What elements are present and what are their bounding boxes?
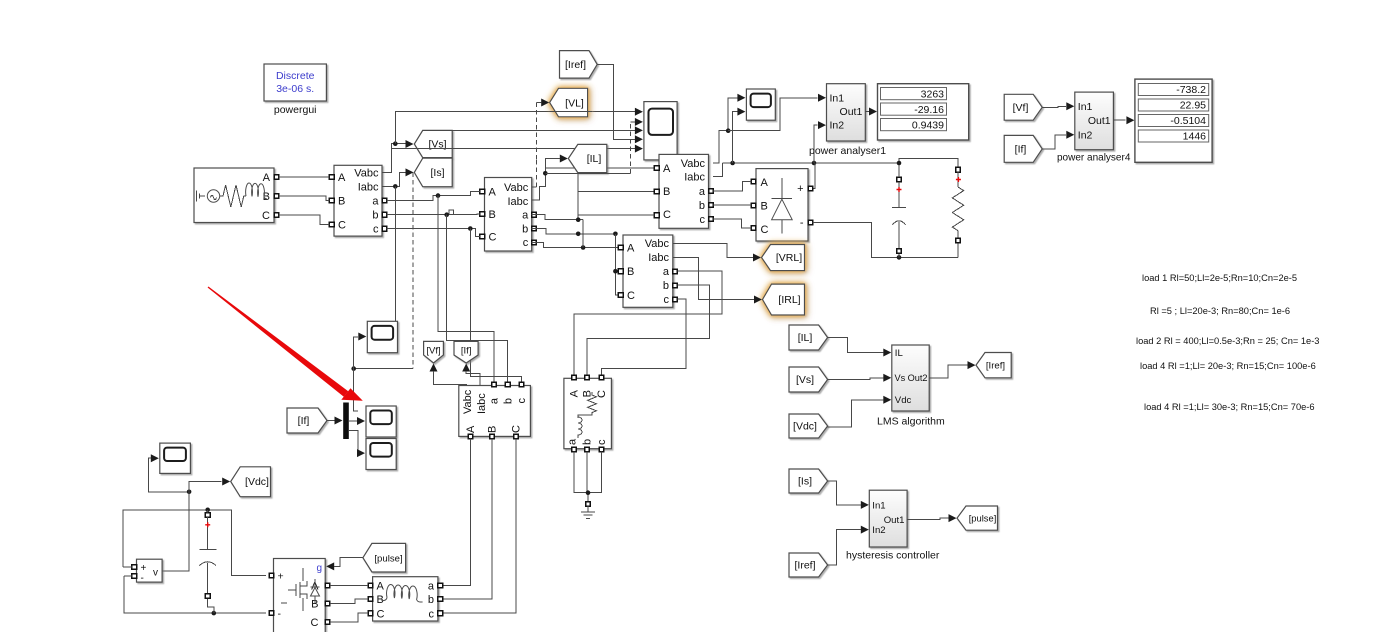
igbt port B — [325, 601, 330, 606]
svg-text:a: a — [522, 210, 529, 222]
svg-text:A: A — [338, 172, 346, 184]
goto tag Vdc — [231, 467, 271, 497]
arrow into Iref — [968, 361, 976, 369]
dc bus bottom rail — [124, 576, 266, 613]
meas2 port c out — [532, 240, 537, 245]
wire meas3 a to bridge A — [713, 182, 751, 191]
node ground junction — [586, 490, 591, 495]
wire dashed feed to scope cluster — [412, 172, 414, 368]
power analyser4 block — [1057, 92, 1131, 163]
svg-text:a: a — [489, 397, 501, 404]
wire to meas3 A — [545, 167, 654, 169]
source port C — [274, 213, 279, 218]
from tag If (top right) — [1004, 135, 1042, 162]
small scope (2 inputs) — [746, 89, 775, 120]
vm port plus — [132, 565, 137, 570]
svg-text:[Vf]: [Vf] — [1013, 102, 1029, 114]
from tag Vdc (right) — [789, 414, 828, 438]
load port a — [572, 447, 577, 452]
node meas4 B — [613, 269, 618, 274]
wire over VL — [550, 111, 592, 113]
wire Iref to hysteresis — [828, 530, 861, 565]
svg-text:[If]: [If] — [461, 345, 472, 356]
svg-text:c: c — [516, 398, 528, 404]
svg-text:[Iref]: [Iref] — [986, 361, 1005, 372]
wire pulse to g — [334, 558, 363, 567]
svg-text:b: b — [699, 200, 705, 212]
wire fmeas Vabc to Vf — [434, 371, 467, 386]
wire meas3 c to bridge C — [713, 219, 751, 228]
meas3 port A — [654, 166, 659, 171]
wire a branch down to filter meas a — [438, 196, 494, 385]
wire fmeas C down to inductor c — [443, 439, 516, 614]
ground — [581, 502, 595, 519]
bridge port minus — [808, 220, 813, 225]
analyser1 input arrows — [818, 94, 826, 102]
svg-text:power analyser4: power analyser4 — [1057, 153, 1131, 164]
svg-text:In2: In2 — [872, 525, 885, 536]
svg-text:C: C — [761, 224, 769, 236]
svg-text:B: B — [489, 209, 496, 221]
svg-text:[Vdc]: [Vdc] — [245, 476, 269, 488]
node Vabc junction — [393, 141, 398, 146]
svg-text:c: c — [664, 294, 670, 306]
meas2 port b out — [532, 226, 537, 231]
node c branch — [468, 226, 473, 231]
svg-text:Vabc: Vabc — [645, 238, 670, 250]
scope Vdc — [160, 443, 191, 473]
node rail In2 — [812, 161, 817, 166]
meas1 port B — [329, 198, 334, 203]
meas1 port c out — [382, 226, 387, 231]
wire meas1 b to meas2 B (with hop) — [387, 210, 480, 215]
wire meas4 Iabc to IRL — [673, 257, 754, 299]
svg-text:[VRL]: [VRL] — [776, 252, 802, 264]
svg-text:[VL]: [VL] — [565, 97, 584, 109]
wire meas1 c to meas2 C — [387, 229, 480, 237]
svg-text:load 4 Rl =1;Ll= 20e-3; Rn=15;: load 4 Rl =1;Ll= 20e-3; Rn=15;Cn= 100e-6 — [1140, 361, 1316, 371]
meas3 port B — [654, 189, 659, 194]
svg-text:Iabc: Iabc — [648, 252, 669, 264]
svg-text:a: a — [663, 266, 670, 278]
wire c branch down to filter meas c — [470, 229, 521, 385]
svg-text:powergui: powergui — [274, 104, 317, 116]
svg-text:Rl =5 ; Ll=20e-3; Rn=80;Cn= 1e: Rl =5 ; Ll=20e-3; Rn=80;Cn= 1e-6 — [1150, 306, 1290, 316]
wire bus to scope in5 — [391, 148, 635, 150]
svg-text:C: C — [262, 210, 270, 222]
svg-text:In1: In1 — [1078, 101, 1093, 113]
wire meas2 b bus — [532, 229, 616, 234]
inductor port c — [438, 611, 443, 616]
wire meas2 Iabc to IL — [532, 159, 560, 200]
node c bus — [581, 245, 586, 250]
svg-text:v: v — [153, 568, 158, 579]
node dc cap bottom — [212, 611, 217, 616]
wire meas1 Iabc to Is — [382, 172, 406, 186]
mux bar — [343, 403, 349, 440]
svg-text:A: A — [663, 163, 671, 175]
arrow into Vf — [430, 364, 438, 372]
svg-text:-: - — [141, 573, 144, 584]
svg-text:c: c — [429, 609, 435, 621]
meas4 port C — [618, 293, 623, 298]
svg-text:hysteresis controller: hysteresis controller — [846, 550, 940, 562]
from tag pulse (flipped) — [363, 543, 406, 572]
svg-text:A: A — [761, 177, 769, 189]
svg-text:[If]: [If] — [298, 415, 310, 427]
arrow into Vs — [406, 140, 414, 148]
wire fmeas Iabc to If — [466, 371, 480, 386]
svg-text:C: C — [596, 390, 608, 398]
analyser4 input arrows — [1066, 102, 1074, 110]
scope bl2 — [366, 406, 396, 437]
from tag Iref (bottom right) — [789, 553, 828, 577]
wire meas3 Iabc joins dc rail — [713, 163, 722, 177]
load port c — [599, 447, 604, 452]
svg-text:Vabc: Vabc — [681, 158, 706, 170]
load port C — [599, 375, 604, 380]
meas4 port a out — [673, 269, 678, 274]
display1 — [878, 84, 969, 140]
wire Iref to scope in4 — [597, 64, 635, 139]
svg-text:a: a — [699, 186, 706, 198]
diode bridge block — [756, 169, 808, 241]
meas3 port a out — [709, 189, 714, 194]
VI measurement meas1 — [334, 165, 382, 236]
wire igbt B to inductor B — [330, 599, 368, 603]
arrow into VL — [541, 99, 549, 107]
VI measurement meas3 — [659, 154, 709, 228]
goto tag IRL (highlighted) — [763, 284, 805, 315]
wire bus Vs to scope in1 — [395, 112, 635, 144]
powergui block — [264, 64, 326, 116]
small scope arrows — [737, 94, 745, 102]
meas1 port b out — [382, 212, 387, 217]
node a bus — [576, 217, 581, 222]
igbt port plus — [269, 573, 274, 578]
wire analyser4 Out1 to display2 — [1113, 119, 1125, 121]
svg-text:Out1: Out1 — [884, 515, 905, 526]
svg-text:Out2: Out2 — [908, 373, 928, 383]
goto tag Vf (down) — [424, 341, 444, 363]
three-phase inductor block — [373, 577, 438, 621]
svg-text:[Is]: [Is] — [430, 167, 444, 179]
svg-text:In2: In2 — [1078, 129, 1093, 141]
svg-text:[Iref]: [Iref] — [565, 59, 586, 71]
wire vm output up to Vdc — [162, 482, 221, 572]
goto tag VRL (highlighted) — [762, 245, 805, 271]
source port A — [274, 175, 279, 180]
from tag Is (right) — [789, 469, 828, 493]
goto tag IL — [568, 144, 607, 172]
wire meas1 a to meas2 A — [387, 192, 480, 201]
svg-text:B: B — [338, 196, 345, 208]
wire igbt C to inductor C — [330, 613, 368, 622]
wire meas2 Vabc to VL (dashed) — [536, 103, 538, 188]
source port B — [274, 194, 279, 199]
red annotation arrow — [208, 287, 363, 401]
svg-text:[pulse]: [pulse] — [969, 513, 997, 524]
fmeas port b — [505, 382, 510, 387]
display2 — [1135, 79, 1212, 162]
svg-text:3e-06 s.: 3e-06 s. — [276, 83, 314, 95]
wire to analyser1 In1 — [728, 98, 817, 131]
wire Vdc to LMS — [828, 400, 884, 427]
meas1 port A — [329, 175, 334, 180]
inductor port b — [438, 597, 443, 602]
scope bl3 — [366, 439, 396, 470]
wire Vs to LMS — [828, 378, 884, 380]
meas2 port a out — [532, 212, 537, 217]
wire IL to LMS — [828, 338, 884, 353]
goto tag If (down) — [454, 341, 478, 363]
node b branch — [444, 212, 449, 217]
from tag IL (right) — [789, 325, 828, 350]
wire analyser1 Out1 to display1 — [865, 111, 869, 113]
node dc cap top — [205, 508, 210, 513]
arrow into g — [326, 562, 334, 570]
svg-text:Iabc: Iabc — [476, 393, 488, 414]
arrow into pulse — [949, 514, 957, 522]
fmeas port c — [519, 382, 524, 387]
arrow into IRL — [754, 296, 762, 304]
svg-text:c: c — [700, 214, 706, 226]
svg-text:A: A — [465, 425, 477, 433]
svg-text:A: A — [489, 187, 497, 199]
svg-text:[Is]: [Is] — [798, 476, 812, 488]
svg-text:Vdc: Vdc — [895, 395, 912, 406]
wire source C to meas1 C — [279, 215, 330, 225]
svg-text:+: + — [278, 570, 284, 582]
wire rail to analyser1 In2 — [814, 125, 818, 163]
svg-text:B: B — [627, 266, 634, 278]
arrow into VRL — [753, 254, 761, 262]
wire spine x578 — [577, 173, 579, 219]
svg-text:C: C — [338, 220, 346, 232]
node a branch — [436, 193, 441, 198]
inductor port A — [368, 583, 373, 588]
meas2 port B — [480, 212, 485, 217]
inductor port B — [368, 597, 373, 602]
wire meas3 b to bridge B — [713, 204, 751, 206]
svg-text:-29.16: -29.16 — [914, 104, 944, 116]
wire If to mux — [327, 420, 335, 422]
wire to scope bl1 — [354, 337, 359, 369]
svg-text:a: a — [428, 581, 435, 593]
wire bus to scope in3 — [423, 129, 635, 131]
inductor port C — [368, 611, 373, 616]
wire b bus down to meas4 B and C — [615, 234, 618, 295]
wire spine to meas3 B — [578, 191, 654, 193]
wire b branch down to filter meas b — [447, 215, 508, 385]
svg-text:A: A — [263, 172, 271, 184]
wire source B to meas1 B — [279, 196, 330, 201]
svg-text:a: a — [567, 438, 579, 445]
from tag If (bottom-left) — [287, 408, 327, 433]
wire igbt A to inductor A — [330, 584, 368, 586]
meas2 port C — [480, 234, 485, 239]
svg-text:c: c — [596, 439, 608, 445]
svg-text:load 2 Rl = 400;Ll=0.5e-3;Rn =: load 2 Rl = 400;Ll=0.5e-3;Rn = 25; Cn= 1… — [1136, 336, 1319, 346]
node Iabc junction — [393, 184, 398, 189]
wire meas2 c bus — [532, 242, 619, 247]
goto tag pulse (right) — [957, 506, 998, 530]
dc capacitor — [199, 510, 216, 613]
fmeas port C — [514, 434, 519, 439]
meas1 port C — [329, 222, 334, 227]
wire meas3 Vabc up to scope/In1 — [713, 98, 737, 163]
svg-text:Out1: Out1 — [840, 106, 863, 118]
voltage measurement block — [137, 559, 163, 584]
load resistor branch — [952, 167, 963, 257]
node — [613, 232, 618, 237]
fmeas port a — [492, 382, 497, 387]
wire load bottom to ground — [574, 452, 602, 502]
svg-text:b: b — [522, 223, 528, 235]
meas1 port a out — [382, 198, 387, 203]
node b bus — [576, 232, 581, 237]
svg-text:LMS algorithm: LMS algorithm — [877, 416, 945, 428]
wire Iabc down branch — [394, 186, 396, 321]
three-phase source block — [194, 168, 274, 223]
svg-text:b: b — [372, 210, 378, 222]
svg-text:c: c — [373, 224, 379, 236]
wire dc rail — [722, 162, 899, 164]
arrow into If — [462, 364, 470, 372]
svg-text:[If]: [If] — [1015, 144, 1027, 156]
svg-text:B: B — [761, 201, 768, 213]
wire Is to hysteresis — [828, 481, 861, 505]
igbt bridge block — [274, 559, 326, 632]
three-phase load block (rotated) — [564, 378, 612, 448]
svg-text:[Vdc]: [Vdc] — [793, 421, 817, 433]
svg-text:-738.2: -738.2 — [1176, 84, 1206, 96]
arrow into Is — [406, 168, 414, 176]
wire IL branch to scope in2 (dashed vertical) — [545, 172, 630, 174]
svg-text:In2: In2 — [830, 120, 845, 132]
wire meas4 a to load A — [574, 271, 722, 375]
wire mux to scope bl3 — [349, 430, 359, 453]
scope input arrows — [635, 108, 643, 116]
arrow into Vdc — [222, 478, 230, 486]
svg-text:0.9439: 0.9439 — [912, 119, 944, 131]
svg-text:c: c — [523, 237, 529, 249]
wire mux to scope bl2 — [349, 420, 357, 422]
svg-text:C: C — [377, 609, 385, 621]
from tag Iref (top) — [560, 51, 598, 79]
svg-text:C: C — [489, 232, 497, 244]
svg-text:Vabc: Vabc — [504, 182, 529, 194]
LMS algorithm block — [877, 345, 945, 428]
svg-text:Iabc: Iabc — [358, 182, 379, 194]
node bottom rail cap — [897, 255, 902, 260]
wire cluster down — [354, 369, 359, 411]
svg-text:Out1: Out1 — [1088, 115, 1111, 127]
svg-text:-: - — [800, 217, 804, 229]
svg-text:Vs: Vs — [895, 373, 906, 383]
svg-text:22.95: 22.95 — [1180, 100, 1206, 112]
goto tag Iref (LMS out) — [976, 353, 1011, 378]
power analyser1 block — [809, 84, 886, 157]
filter VI measurement (rotated) — [459, 386, 531, 437]
wire hysteresis Out1 to pulse — [907, 518, 948, 520]
svg-text:[Iref]: [Iref] — [794, 560, 815, 572]
svg-text:In1: In1 — [830, 92, 845, 104]
svg-text:B: B — [487, 426, 499, 433]
goto tag Vs — [414, 130, 452, 157]
svg-text:Iabc: Iabc — [684, 172, 705, 184]
svg-text:b: b — [663, 280, 669, 292]
vm port minus — [132, 574, 137, 579]
wire a bus down to meas4 A — [582, 220, 584, 248]
wire If to analyser4 — [1042, 135, 1066, 149]
goto tag VL (highlighted) — [550, 88, 588, 117]
wire rail to scope in2 — [733, 112, 738, 163]
inductor port a — [438, 583, 443, 588]
svg-text:C: C — [311, 617, 319, 629]
svg-text:b: b — [428, 594, 434, 606]
wire fmeas B down to inductor b — [443, 439, 492, 599]
wire Vf to analyser4 — [1042, 106, 1066, 107]
meas3 port c out — [709, 217, 714, 222]
svg-text:[Vs]: [Vs] — [796, 374, 814, 386]
wire Vdc node to scope — [149, 458, 190, 492]
dc-link capacitor branch — [892, 159, 958, 258]
wire LMS Out2 to Iref — [929, 365, 967, 378]
svg-text:[IL]: [IL] — [587, 153, 602, 165]
LMS input arrows — [883, 349, 891, 357]
fmeas port B — [490, 434, 495, 439]
from tag Vf (top right) — [1004, 94, 1042, 120]
svg-text:+: + — [797, 183, 803, 195]
meas4 port B — [618, 269, 623, 274]
goto tag Is — [414, 158, 452, 187]
meas4 port c out — [673, 297, 678, 302]
fmeas port A — [468, 434, 473, 439]
wire source A to meas1 A — [279, 176, 330, 178]
meas3 port b out — [709, 203, 714, 208]
svg-text:1446: 1446 — [1183, 131, 1207, 143]
svg-text:In1: In1 — [872, 500, 885, 511]
scope (main, 5 inputs) — [644, 102, 677, 160]
wire spine to meas3 C — [578, 214, 654, 216]
VI measurement meas2 — [485, 178, 532, 252]
arrow into IL — [560, 155, 568, 163]
svg-text:A: A — [627, 242, 635, 254]
from tag Vs (right) — [789, 367, 828, 392]
meas4 port A — [618, 245, 623, 250]
meas4 port b out — [673, 283, 678, 288]
svg-text:g: g — [316, 563, 322, 574]
wire meas4 c to load C — [602, 299, 686, 375]
wire bridge minus to bottom rail — [813, 222, 958, 257]
wire fmeas A down to inductor a — [443, 439, 471, 586]
svg-text:b: b — [503, 398, 515, 404]
igbt port minus — [269, 611, 274, 616]
node IL branch — [543, 171, 548, 176]
svg-text:C: C — [627, 290, 635, 302]
node scope1 branch — [726, 128, 731, 133]
svg-text:-0.5104: -0.5104 — [1170, 115, 1206, 127]
svg-text:IL: IL — [895, 348, 904, 359]
svg-text:[pulse]: [pulse] — [374, 553, 402, 564]
igbt port C — [325, 620, 330, 625]
dc bus top rail — [123, 510, 266, 576]
svg-text:A: A — [569, 389, 581, 397]
wire meas4 b to load B — [587, 285, 710, 375]
node rail scope2 — [730, 161, 735, 166]
svg-text:Discrete: Discrete — [276, 70, 315, 82]
